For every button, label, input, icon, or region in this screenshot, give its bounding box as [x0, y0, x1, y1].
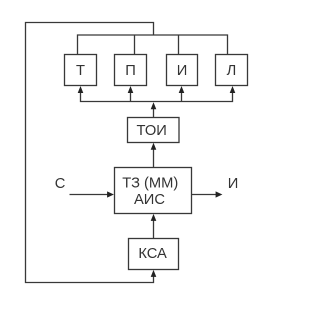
arrowhead ТОИ output at collector — [151, 102, 157, 109]
wire top distributor with end drops to Т and Л — [78, 35, 228, 55]
svg-text:КСА: КСА — [138, 246, 167, 262]
svg-text:И: И — [228, 176, 239, 192]
arrowhead into П bottom — [128, 86, 134, 93]
svg-text:Л: Л — [227, 63, 237, 79]
arrowhead into Л bottom — [230, 86, 236, 93]
svg-text:С: С — [55, 176, 66, 192]
arrowhead into ТОИ bottom — [151, 143, 157, 150]
wire drop to П — [134, 35, 136, 55]
wire drop to И — [178, 35, 180, 55]
svg-text:Т: Т — [76, 63, 85, 79]
wire С input — [70, 194, 108, 196]
arrowhead into И bottom — [179, 86, 185, 93]
wire feedback loop: distributor line, up, across top, down left side, along bottom, to КСА input — [26, 23, 154, 283]
svg-text:И: И — [177, 63, 188, 79]
arrowhead into КСА bottom — [151, 270, 157, 277]
wire branch to П — [130, 93, 132, 102]
svg-text:П: П — [125, 63, 136, 79]
svg-text:ТЗ (ММ): ТЗ (ММ) — [122, 176, 178, 192]
box И — [167, 55, 198, 86]
arrowhead into ТЗ bottom — [151, 214, 157, 221]
arrowhead С input into ТЗ left — [107, 191, 114, 197]
wire branch to И — [181, 93, 183, 102]
box КСА — [129, 239, 179, 270]
box Т — [65, 55, 97, 86]
wire И output — [192, 194, 217, 196]
arrowhead into Т bottom — [78, 86, 84, 93]
box П — [115, 55, 147, 86]
box ТОИ — [128, 118, 180, 143]
box ТЗ (ММ) АИС — [115, 168, 192, 214]
wire ТОИ output to collector — [153, 109, 155, 118]
wire ТЗ output to ТОИ — [153, 150, 155, 168]
box Л — [216, 55, 248, 86]
wire collector line below top boxes with end branches to Т and Л — [81, 93, 233, 102]
svg-text:ТОИ: ТОИ — [137, 123, 167, 139]
arrowhead И output — [216, 191, 223, 197]
wire КСА output to ТЗ — [153, 221, 155, 239]
svg-text:АИС: АИС — [134, 192, 165, 208]
